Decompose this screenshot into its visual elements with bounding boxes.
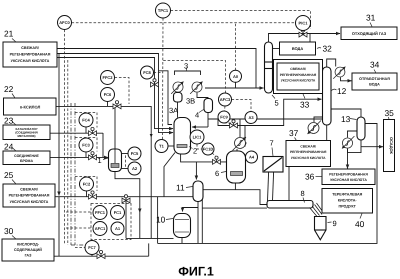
box 32 water (280, 42, 316, 55)
svg-text:ТЕРЕФТАЛЕВАЯ: ТЕРЕФТАЛЕВАЯ (332, 193, 363, 197)
wire reactor 2 bottom left transfer (164, 153, 175, 197)
column 13 (357, 117, 365, 140)
svg-text:СВЕЖАЯ/: СВЕЖАЯ/ (20, 188, 37, 192)
instrument LIC1 (190, 130, 204, 144)
dashed FC8 to TPC1 line (154, 72, 164, 74)
svg-text:T1: T1 (159, 144, 164, 149)
wire column 12 top to cooler (327, 59, 336, 67)
valve on feed drop line (122, 195, 130, 203)
instrument A3 (245, 112, 257, 124)
leader 8 (303, 198, 305, 203)
svg-text:РЕГЕНЕРИРОВАННАЯ: РЕГЕНЕРИРОВАННАЯ (9, 194, 50, 198)
text box 37 (290, 144, 327, 160)
svg-text:12: 12 (337, 86, 347, 96)
instrument A2 (128, 162, 141, 175)
dashed FC2 link to valve (75, 177, 97, 192)
dryer 9 cone (315, 217, 327, 240)
svg-text:1: 1 (98, 156, 102, 165)
instrument PIC1 (296, 16, 311, 31)
wire valve feed down x=123.5 (125, 197, 127, 239)
leader 33 (303, 94, 305, 99)
svg-text:FC8: FC8 (143, 70, 151, 75)
leader 10 (166, 219, 173, 220)
dashed FFC2 right (115, 78, 130, 105)
dashed AFC3 to A3 (232, 100, 252, 112)
svg-text:9: 9 (333, 219, 337, 228)
valve on bromine line (FC3) (89, 152, 97, 160)
dashed signal AFC0 to PIC1 (72, 22, 296, 24)
box 34 waste water (352, 73, 397, 90)
wire column 13 bottoms loop (348, 140, 362, 153)
svg-text:A2: A2 (132, 166, 138, 171)
leader 2 (189, 147, 193, 149)
leader 5 (272, 95, 275, 99)
leader 11 (186, 187, 193, 188)
svg-text:FC3: FC3 (82, 143, 90, 148)
svg-text:УКСУСНАЯ КИСЛОТА: УКСУСНАЯ КИСЛОТА (11, 59, 50, 63)
dashed bus to FC7 (75, 247, 85, 249)
valve below FC8 (151, 79, 159, 87)
wire reactor 6 vapor to condenser (236, 149, 238, 151)
column 5 (265, 42, 273, 93)
leader 21 (12, 39, 16, 43)
leader 32 (317, 47, 321, 50)
svg-text:A1: A1 (115, 226, 121, 231)
wire FC7 stem (91, 255, 93, 257)
wire acetic acid 21 lower via valve FC8 (57, 58, 173, 129)
column 12 (323, 67, 332, 125)
svg-text:36: 36 (305, 172, 315, 182)
wire vessel 11 bottom down (197, 202, 199, 244)
box 24 bromine compound (3, 151, 50, 165)
wire reflux return into reactor 2 (192, 126, 208, 128)
svg-text:3: 3 (184, 62, 188, 71)
box 37 fresh/regenerated acetic acid (286, 141, 331, 167)
leader 37 (295, 138, 297, 141)
wire A4 stem to reactor 6 (246, 156, 249, 158)
svg-text:FC4: FC4 (82, 118, 90, 123)
wire acetic 25 main line to vessel 11 (55, 196, 193, 198)
box 40 terephthalic acid product (322, 189, 373, 214)
dashed bus to AFC1 (66, 227, 92, 229)
svg-text:AFC0: AFC0 (59, 20, 70, 25)
wire separator 7 legs (268, 172, 269, 201)
hatch chute to dryer 9 (310, 203, 325, 217)
dashed LIC1 to FC10 (197, 144, 202, 149)
svg-text:8: 8 (301, 189, 305, 198)
condenser above reactor 6 (233, 137, 247, 151)
svg-text:ВОДА: ВОДА (369, 83, 380, 87)
svg-text:33: 33 (300, 100, 310, 110)
leader 3 tick (186, 68, 188, 71)
svg-text:УКСУСНАЯ КИСЛОТА: УКСУСНАЯ КИСЛОТА (330, 178, 367, 182)
instrument A0 (230, 70, 242, 82)
text box 23 (15, 127, 37, 138)
dashed signal TPC1 down to T1 (162, 18, 165, 140)
svg-text:КИСЛОТА-: КИСЛОТА- (338, 199, 358, 203)
vessel 1 mixing tank (109, 149, 122, 172)
filter 8 trough (267, 201, 313, 209)
wire bracket 3 (175, 71, 201, 75)
wire cooler to waste water 34 (341, 77, 352, 81)
wire mother liquor bottom line (158, 124, 377, 244)
wire bromine 24 to vessel 1 (50, 133, 103, 157)
svg-text:40: 40 (355, 219, 365, 229)
reactor 6 crystallizer (227, 151, 246, 183)
wire air riser corner (148, 243, 150, 256)
wire tee down to vessel 11 (195, 162, 197, 180)
svg-text:A4: A4 (249, 155, 255, 160)
instrument TPC1 (156, 3, 171, 18)
leader 23 (12, 122, 16, 126)
svg-text:30: 30 (4, 226, 14, 236)
wire stub between bottom lines (157, 197, 159, 244)
wire acetic acid 21 top long line to column 5 (57, 49, 264, 89)
svg-text:6: 6 (215, 169, 219, 178)
svg-text:7: 7 (270, 139, 274, 148)
wire vessel 1 bottom out (115, 172, 140, 213)
leader 31 (370, 23, 372, 27)
wire air riser to crystallizer train (201, 190, 203, 244)
leader 34 (374, 70, 376, 74)
svg-text:4: 4 (195, 111, 199, 120)
leader 6 (221, 172, 226, 173)
text box 33 (280, 67, 317, 83)
dashed cluster box FFC1 group (91, 204, 131, 240)
box 36 regenerated acetic acid (322, 169, 375, 185)
svg-text:ОТРАБОТАННАЯ: ОТРАБОТАННАЯ (359, 77, 390, 81)
instrument FC9 (218, 111, 230, 123)
svg-text:25: 25 (4, 170, 14, 180)
cooler near column 12 top (333, 67, 345, 79)
wire y=208 line (202, 207, 267, 209)
svg-text:FC1D: FC1D (203, 147, 214, 152)
svg-text:11: 11 (176, 183, 185, 193)
instrument FC1 (111, 206, 125, 220)
vessel 4 reflux drum (204, 99, 213, 113)
dashed FC3 link to valve (75, 138, 97, 152)
svg-text:FC1: FC1 (114, 210, 122, 215)
svg-text:PIC1: PIC1 (299, 21, 309, 26)
valve on p-xylene line (FC6) (113, 101, 121, 109)
svg-text:FC7: FC7 (88, 245, 96, 250)
svg-text:A3: A3 (248, 115, 254, 120)
svg-text:КИСЛОРОД-: КИСЛОРОД- (17, 243, 40, 247)
svg-text:FFC2: FFC2 (103, 75, 114, 80)
leader 9 (328, 221, 332, 224)
wire FC6 stem (107, 102, 109, 107)
dashed signal A0 up (235, 23, 237, 71)
wire y=88 into column 5 (205, 87, 256, 89)
condenser 3B (190, 81, 202, 93)
reboiler of column 13 (342, 136, 354, 148)
leader 36 (316, 176, 322, 178)
dashed signal AFC0 down (64, 30, 66, 246)
text box 21 (10, 46, 51, 63)
text box 36 (329, 172, 368, 181)
svg-text:37: 37 (289, 128, 299, 138)
box 35 sediment (384, 120, 395, 172)
vessel 10 (174, 214, 191, 238)
wire column 13 overhead into sediment 35 (361, 146, 383, 148)
wire vessel 4 bottom to vapor line y=119 (207, 113, 209, 128)
wire column 12 bottom into box 37 (326, 125, 328, 140)
dashed AFC3 to FC9 (224, 106, 227, 111)
svg-text:СОДЕРЖАЩИЙ: СОДЕРЖАЩИЙ (14, 247, 42, 252)
wire vapor line to column 12 (208, 118, 323, 120)
wire wash liquid over to column 12 (245, 99, 322, 125)
leader 35 (388, 117, 391, 120)
wire reactor 2 bottom to crystallizer 6 (181, 154, 227, 162)
svg-text:п-КСИЛОЛ: п-КСИЛОЛ (20, 104, 41, 109)
wire vapor riser reactor 2 to column 5 (159, 71, 173, 125)
svg-text:FC2: FC2 (83, 182, 91, 187)
instrument FFC2 (101, 71, 115, 85)
svg-text:LIC1: LIC1 (193, 135, 202, 140)
instrument FC5 (128, 147, 141, 160)
instrument FC4 (79, 113, 93, 127)
box 33 fresh/regenerated acetic acid (double border) (274, 60, 323, 94)
svg-text:A0: A0 (233, 74, 239, 79)
svg-text:FC9: FC9 (220, 115, 228, 120)
instrument FFC1 (93, 206, 107, 220)
svg-text:32: 32 (323, 44, 333, 54)
instrument AFC0 (58, 16, 72, 30)
svg-text:РЕГЕНЕРИРОВАННАЯ: РЕГЕНЕРИРОВАННАЯ (10, 53, 51, 57)
svg-text:10: 10 (156, 215, 166, 225)
svg-text:35: 35 (385, 108, 395, 118)
instrument T1 (155, 140, 168, 153)
box 25 fresh/regenerated acetic acid (3, 184, 55, 207)
box 31 off-gas (341, 27, 397, 40)
svg-text:РЕГЕНЕРИРОВАННАЯ: РЕГЕНЕРИРОВАННАЯ (329, 172, 368, 176)
wire column 5 overhead to off-gas 31 (269, 34, 341, 43)
svg-text:13: 13 (341, 114, 351, 124)
wire reboiler to box 36 (347, 149, 349, 169)
instrument FC2 (80, 177, 94, 191)
leader 40 (360, 214, 362, 219)
svg-text:22: 22 (4, 84, 14, 94)
svg-text:23: 23 (4, 116, 14, 126)
reactor 2 oxidation (174, 118, 191, 155)
svg-text:24: 24 (4, 142, 14, 152)
text box 40 (332, 193, 363, 209)
wire T1 stem to reactor 2 (168, 145, 174, 147)
valve on catalyst line (FC4) (89, 127, 97, 135)
instrument AFC3 (219, 93, 232, 106)
svg-text:AFC1: AFC1 (95, 226, 106, 231)
leader 22 (12, 94, 15, 99)
svg-text:AFC3: AFC3 (220, 97, 231, 102)
instrument FC6 (101, 88, 115, 102)
leader 7 (272, 148, 273, 157)
separator 7 (263, 157, 283, 173)
drum below condenser 3A (174, 93, 183, 103)
wire column 12 to column 13 (331, 109, 361, 117)
svg-text:ВОДА: ВОДА (292, 46, 303, 51)
box 30 oxygen containing gas (2, 239, 54, 261)
valve on off-gas line (PIC1) (299, 29, 307, 37)
wire FC3 stem (85, 152, 87, 157)
dashed FC10 to valve (212, 153, 216, 158)
leader 13 (350, 119, 357, 120)
svg-text:3B: 3B (186, 97, 195, 106)
valve on reflux line (FC9) (230, 120, 238, 128)
svg-text:FFC1: FFC1 (95, 210, 106, 215)
dashed FC5 left (126, 154, 129, 169)
instrument A1 (111, 222, 124, 235)
wire vessel 11 to vessel 10 (183, 208, 199, 212)
svg-text:МЕТАЛЛОВ): МЕТАЛЛОВ) (17, 134, 35, 138)
dashed PIC1 to valve (302, 30, 304, 32)
svg-text:УКСУСНАЯ КИСЛОТА: УКСУСНАЯ КИСЛОТА (10, 200, 49, 204)
leader 25 (12, 180, 16, 185)
dashed y=60 line (163, 61, 225, 93)
wire branch 21 down to 25 line (58, 54, 60, 196)
wire 3A drain to reactor 2 (177, 102, 179, 118)
wire column 12 reboil loop to cooler (314, 117, 323, 122)
wire slurry line y=238.4 to vessel 10 (126, 237, 174, 239)
wire catalyst 23 (50, 132, 103, 134)
svg-text:FC6: FC6 (104, 92, 112, 97)
leader 4 (199, 110, 204, 113)
text box 24 (14, 154, 39, 163)
box 23 catalyst (3, 125, 50, 140)
wire transfer y=189.7 to separator (202, 190, 267, 205)
svg-text:ОСАДОК: ОСАДОК (389, 137, 394, 154)
wire vessel 10 bottom (181, 238, 183, 244)
dashed FC4 link to valve (75, 113, 97, 128)
svg-text:ОТХОДЯЩИЙ ГАЗ: ОТХОДЯЩИЙ ГАЗ (352, 31, 387, 36)
wire FC4 stem (85, 127, 87, 133)
svg-text:21: 21 (4, 29, 14, 39)
svg-text:FC5: FC5 (131, 151, 139, 156)
wire vertical 59 to oxygen line (58, 197, 60, 256)
svg-text:СОЕДИНЕНИЕ: СОЕДИНЕНИЕ (14, 154, 39, 158)
instrument FC8 (141, 66, 154, 79)
svg-text:СВЕЖАЯ/: СВЕЖАЯ/ (290, 67, 306, 71)
instrument FC7 (85, 241, 99, 255)
dashed bus to FFC1 (66, 211, 92, 213)
box 21 fresh/regenerated acetic acid (3, 42, 57, 67)
text box 30 (14, 243, 42, 258)
svg-text:ФИГ.1: ФИГ.1 (178, 265, 214, 279)
wire A2 stem to vessel 1 (122, 168, 129, 170)
wire acetic acid 21 middle line down to reactor 2 (57, 54, 173, 133)
svg-text:СВЕЖАЯ/: СВЕЖАЯ/ (21, 46, 38, 50)
box 22 p-xylene (4, 98, 57, 115)
instrument FC3 (79, 138, 93, 152)
dashed signal TPC1 right to PIC1 valve (171, 11, 311, 30)
leader 30 (12, 236, 16, 240)
wire off-gas branch into water 32 (309, 34, 311, 43)
wire FC5 stem to vessel 1 (122, 153, 129, 155)
svg-text:ПРОДУКТ: ПРОДУКТ (338, 205, 356, 209)
wire reactor 6 bottom out (234, 183, 236, 190)
instrument FC10 (202, 143, 214, 155)
wire A0 stem (235, 82, 237, 88)
wire p-xylene 22 feed to vessel 1 (56, 106, 151, 238)
svg-text:ГАЗ: ГАЗ (25, 254, 33, 258)
dashed bus vertical (67, 60, 69, 245)
leader 1 (103, 158, 108, 160)
svg-text:РЕГЕНЕРИРОВАННАЯ: РЕГЕНЕРИРОВАННАЯ (280, 73, 317, 77)
svg-text:УКСУСНАЯ КИСЛОТА: УКСУСНАЯ КИСЛОТА (281, 79, 316, 83)
svg-text:TPC1: TPC1 (158, 8, 169, 13)
cooler above box 37 (308, 121, 322, 135)
dashed FC9 to valve (224, 122, 234, 124)
svg-text:3A: 3A (169, 106, 178, 115)
wire water draw column 5 (273, 48, 280, 50)
wire reflux via valve FC9 to reactor 6 (218, 119, 245, 147)
wire FC2 stem (86, 191, 88, 197)
svg-text:31: 31 (366, 13, 376, 23)
svg-text:5: 5 (275, 99, 279, 108)
svg-text:УКСУСНАЯ КИСЛОТА: УКСУСНАЯ КИСЛОТА (291, 156, 326, 160)
text box 34 (359, 77, 390, 87)
instrument A4 (246, 151, 258, 163)
valve on acetic line (FC2) (89, 191, 97, 199)
wire oxygen gas 30 (54, 255, 149, 257)
svg-text:СВЕЖАЯ/: СВЕЖАЯ/ (300, 144, 316, 148)
condenser 3A (171, 81, 183, 93)
svg-text:БРОМА: БРОМА (20, 159, 33, 163)
leader 12 (332, 89, 337, 90)
valve on slurry line (FC10) (213, 156, 221, 164)
svg-text:РЕГЕНЕРИРОВАННАЯ: РЕГЕНЕРИРОВАННАЯ (290, 150, 327, 154)
dashed A3 stem (250, 119, 252, 124)
vessel 11 (193, 181, 203, 202)
wire 3B drain to vessel 4 (197, 93, 208, 99)
wire 37 bottom to filter (288, 167, 290, 201)
valve on oxygen line (FC7) (97, 250, 105, 258)
instrument AFC1 (93, 222, 107, 236)
text box 25 (9, 188, 50, 204)
svg-text:34: 34 (370, 60, 380, 70)
leader 24 (12, 148, 16, 152)
dashed control bus verticals (71, 103, 84, 245)
svg-text:2: 2 (193, 147, 197, 156)
